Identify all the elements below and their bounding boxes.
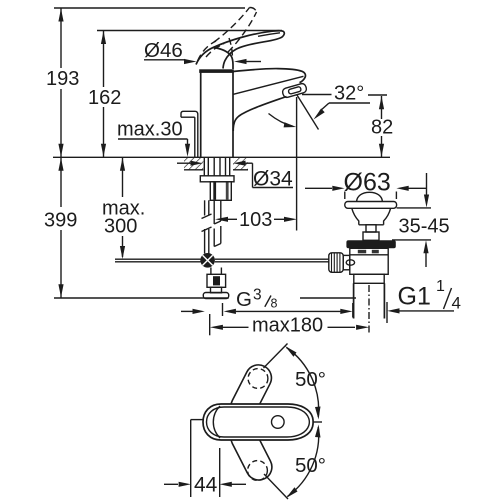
svg-text:Ø34: Ø34 bbox=[253, 168, 293, 191]
svg-text:50°: 50° bbox=[295, 454, 326, 477]
svg-text:32°: 32° bbox=[334, 83, 364, 105]
svg-text:Ø46: Ø46 bbox=[144, 39, 183, 62]
svg-text:82: 82 bbox=[371, 117, 393, 139]
svg-text:max.30: max.30 bbox=[117, 119, 183, 141]
svg-text:4: 4 bbox=[452, 294, 461, 313]
svg-text:G1: G1 bbox=[398, 283, 431, 311]
svg-text:399: 399 bbox=[44, 210, 77, 232]
svg-text:1: 1 bbox=[436, 278, 445, 295]
svg-text:162: 162 bbox=[88, 87, 121, 109]
svg-text:193: 193 bbox=[46, 68, 79, 90]
svg-text:Ø63: Ø63 bbox=[344, 169, 391, 197]
svg-text:300: 300 bbox=[104, 216, 137, 238]
svg-text:44: 44 bbox=[194, 474, 218, 497]
svg-text:3: 3 bbox=[253, 287, 262, 304]
svg-text:35-45: 35-45 bbox=[399, 216, 450, 238]
svg-text:max180: max180 bbox=[252, 315, 323, 337]
svg-text:G: G bbox=[236, 288, 252, 311]
svg-text:8: 8 bbox=[271, 297, 278, 311]
svg-text:103: 103 bbox=[239, 209, 272, 231]
svg-text:50°: 50° bbox=[295, 368, 326, 391]
